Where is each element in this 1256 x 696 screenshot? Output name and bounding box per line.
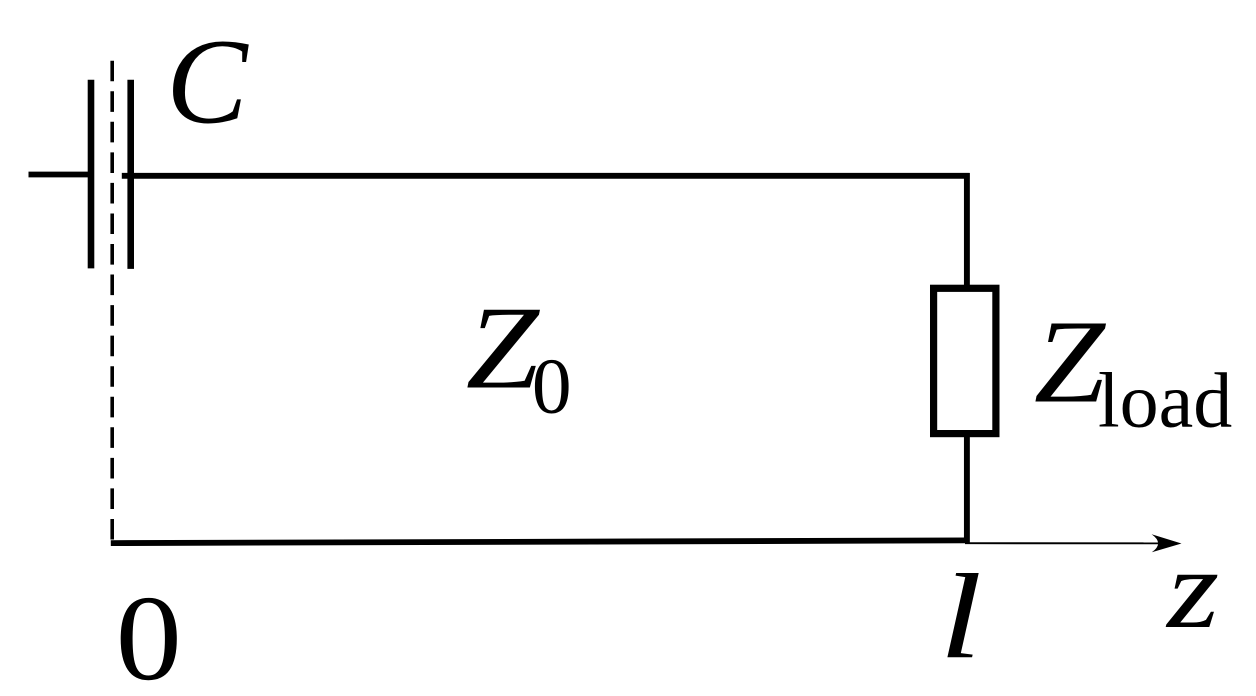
resistor Z_load body [934,288,996,433]
svg-text:Z: Z [466,282,541,414]
svg-text:C: C [166,15,249,150]
wire: top conductor [122,173,970,179]
svg-text:Z: Z [1034,296,1107,428]
svg-text:0: 0 [532,343,572,431]
dashed reference line at z=0 [110,61,114,543]
svg-text:z: z [1165,525,1219,652]
z axis line [965,542,1160,544]
z axis arrowhead [1152,534,1182,552]
wire: bottom conductor [111,540,969,543]
wire: right vertical lower segment [964,431,970,543]
wire: right vertical upper segment [964,173,970,291]
capacitor C right plate [127,80,134,269]
svg-text:load: load [1098,357,1232,444]
wire: left source lead [29,172,92,178]
svg-text:0: 0 [116,571,182,696]
capacitor C left plate [88,80,95,269]
svg-text:l: l [939,550,982,685]
